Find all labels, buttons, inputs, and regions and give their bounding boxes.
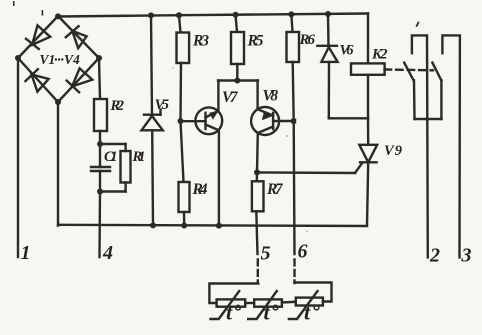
svg-text:t: t bbox=[226, 300, 233, 325]
svg-text:V1: V1 bbox=[40, 52, 56, 67]
svg-text:6: 6 bbox=[298, 241, 308, 263]
svg-text:R1: R1 bbox=[132, 149, 146, 165]
svg-text:V4: V4 bbox=[64, 52, 80, 67]
svg-text:R3: R3 bbox=[192, 33, 209, 50]
svg-text:2: 2 bbox=[429, 245, 440, 267]
svg-text:C1: C1 bbox=[104, 149, 118, 165]
svg-text:V5: V5 bbox=[155, 97, 170, 113]
svg-text:K2: K2 bbox=[371, 47, 388, 63]
svg-text:R7: R7 bbox=[266, 181, 284, 198]
svg-text:R2: R2 bbox=[110, 98, 125, 114]
svg-text:V7: V7 bbox=[222, 89, 239, 106]
svg-text:V9: V9 bbox=[384, 143, 402, 159]
svg-text:R5: R5 bbox=[247, 33, 264, 50]
svg-text:t: t bbox=[304, 300, 311, 325]
svg-text:5: 5 bbox=[261, 243, 271, 265]
svg-text:4: 4 bbox=[102, 242, 113, 264]
svg-text:1: 1 bbox=[21, 242, 31, 264]
svg-text:V8: V8 bbox=[263, 88, 279, 105]
svg-text:R4: R4 bbox=[192, 181, 208, 198]
svg-text:3: 3 bbox=[461, 245, 472, 267]
svg-text:V6: V6 bbox=[340, 43, 355, 59]
svg-text:R6: R6 bbox=[299, 32, 316, 48]
svg-text:t: t bbox=[264, 300, 271, 325]
